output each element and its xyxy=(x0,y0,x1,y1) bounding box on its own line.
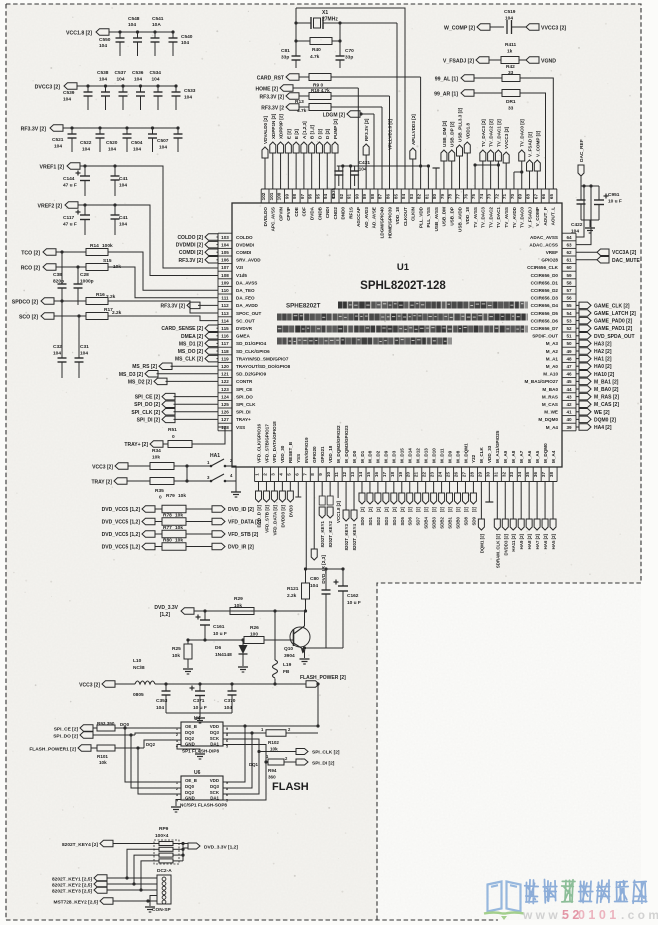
svg-text:90: 90 xyxy=(354,194,359,200)
svg-text:GPIO21: GPIO21 xyxy=(320,446,325,463)
capacitor C371 10uF xyxy=(190,682,207,713)
svg-text:COLDO: COLDO xyxy=(236,235,253,240)
svg-text:SD7: SD7 xyxy=(416,516,421,525)
svg-text:HA7 [2]: HA7 [2] xyxy=(535,533,540,549)
svg-text:11: 11 xyxy=(334,472,339,477)
wire xyxy=(54,300,86,302)
svg-text:10 u F: 10 u F xyxy=(608,199,622,205)
label C538 xyxy=(97,70,109,83)
svg-text:121: 121 xyxy=(221,372,229,377)
top stub PUMP pin 93 xyxy=(332,118,338,189)
svg-text:DMEA [2]: DMEA [2] xyxy=(181,334,203,340)
signal tag DVDMDI left xyxy=(176,241,218,248)
wire emitter xyxy=(303,646,306,658)
wire pin63 up xyxy=(576,186,591,245)
capacitor C519 104 xyxy=(504,9,526,34)
svg-text:USB_DP [2]: USB_DP [2] xyxy=(450,121,455,147)
svg-text:DQ0: DQ0 xyxy=(185,784,195,789)
svg-text:[2]: [2] xyxy=(392,506,397,512)
top connector USB_DM pin 79 xyxy=(441,120,447,189)
svg-text:83: 83 xyxy=(409,194,414,200)
svg-text:D6: D6 xyxy=(215,645,221,651)
wire base rail xyxy=(196,609,307,612)
signal tag SPDCO xyxy=(12,298,54,306)
svg-text:VFD_STB [2]: VFD_STB [2] xyxy=(264,505,269,533)
svg-text:20: 20 xyxy=(406,472,411,478)
svg-text:RF1S: RF1S xyxy=(348,207,353,219)
svg-text:DA_TEO: DA_TEO xyxy=(236,288,255,293)
ground U4 xyxy=(177,745,205,760)
svg-text:FLASH: FLASH xyxy=(272,781,309,793)
svg-text:DVDLDO: DVDLDO xyxy=(263,207,268,227)
resistor R80 10k xyxy=(162,538,186,551)
svg-text:AD_AVSE: AD_AVSE xyxy=(372,207,377,228)
label C534 xyxy=(150,70,162,83)
wire crystal left branch xyxy=(294,8,297,52)
signal tag 8202T_KEY3 xyxy=(52,887,157,895)
wire TV_AVSS link xyxy=(473,163,500,189)
svg-text:95: 95 xyxy=(315,194,320,200)
svg-text:126: 126 xyxy=(221,410,229,415)
svg-text:104: 104 xyxy=(108,147,116,153)
svg-text:E [2]: E [2] xyxy=(286,129,291,139)
svg-text:[2]: [2] xyxy=(384,506,389,512)
svg-text:PLL_VSS: PLL_VSS xyxy=(426,207,431,227)
svg-text:C353: C353 xyxy=(156,698,168,704)
top connector USB_DP pin 78 xyxy=(449,121,455,189)
svg-text:R34: R34 xyxy=(152,448,161,454)
svg-text:104: 104 xyxy=(119,222,127,228)
svg-text:SD5: SD5 xyxy=(400,516,405,525)
svg-text:DVD_VCC5 [1,2]: DVD_VCC5 [1,2] xyxy=(102,507,141,513)
svg-text:FLASH_POWER [2]: FLASH_POWER [2] xyxy=(300,675,346,681)
svg-text:TV_DAC1: TV_DAC1 xyxy=(496,207,501,228)
svg-text:VREF: VREF xyxy=(546,250,558,255)
svg-text:92: 92 xyxy=(339,194,344,200)
svg-text:CCIR656_D2: CCIR656_D2 xyxy=(531,288,559,293)
svg-text:M_DQM3/GPIO23: M_DQM3/GPIO23 xyxy=(344,425,349,463)
svg-text:AOUT_P: AOUT_P xyxy=(543,207,548,226)
svg-text:122: 122 xyxy=(221,379,229,384)
svg-text:R101: R101 xyxy=(97,754,108,759)
signal tag M_BA0 right xyxy=(576,386,619,393)
svg-text:DVD_IR [2]: DVD_IR [2] xyxy=(228,545,254,551)
power tag VCC3 bottom xyxy=(79,681,135,689)
svg-text:84: 84 xyxy=(401,194,406,200)
power tag DVD_3.3V keys xyxy=(188,843,238,851)
svg-text:64: 64 xyxy=(566,235,572,240)
svg-text:SD9: SD9 xyxy=(471,516,476,525)
svg-text:C41: C41 xyxy=(119,176,128,182)
capacitor C80 104 xyxy=(310,569,331,648)
svg-text:COMDI: COMDI xyxy=(236,250,251,255)
svg-text:SD_D2/GPIO9: SD_D2/GPIO9 xyxy=(236,372,267,377)
svg-text:D [2]: D [2] xyxy=(317,128,322,139)
svg-text:27: 27 xyxy=(461,472,466,478)
svg-text:TV_DAC1 [2]: TV_DAC1 [2] xyxy=(496,119,501,147)
svg-text:GND: GND xyxy=(185,742,195,747)
svg-text:56: 56 xyxy=(566,296,572,301)
label C537 xyxy=(115,70,127,83)
U1 top-side pin names xyxy=(263,206,556,238)
resistor R79 10k xyxy=(162,493,186,513)
svg-text:CLKIN: CLKIN xyxy=(411,206,416,221)
svg-text:C507: C507 xyxy=(157,138,169,144)
signal tag COMDI left xyxy=(179,249,218,256)
wire U6 VDD up xyxy=(223,724,247,782)
wire xyxy=(520,93,546,189)
svg-text:M_A4: M_A4 xyxy=(551,450,556,463)
svg-text:123: 123 xyxy=(221,387,229,392)
svg-text:C540: C540 xyxy=(181,34,193,40)
top connector VDVALD0 pin 102 xyxy=(262,116,268,189)
svg-text:TRAYIN/SD_SMD/GPIO7: TRAYIN/SD_SMD/GPIO7 xyxy=(236,356,289,361)
capacitor C370 104 xyxy=(224,682,237,713)
svg-text:C161: C161 xyxy=(213,624,225,630)
svg-text:30: 30 xyxy=(485,472,490,478)
svg-text:DA1: DA1 xyxy=(210,742,219,747)
wire RP9 left bus xyxy=(127,849,154,890)
svg-text:M_A11/GPIO25: M_A11/GPIO25 xyxy=(495,430,500,463)
svg-text:76: 76 xyxy=(463,194,468,200)
svg-text:104: 104 xyxy=(63,97,71,103)
svg-text:108: 108 xyxy=(221,273,229,278)
signal tag SPI_DI flash xyxy=(296,759,335,767)
svg-text:70: 70 xyxy=(510,194,515,200)
svg-text:GND: GND xyxy=(185,796,195,801)
svg-text:5: 5 xyxy=(286,473,291,476)
svg-text:R35: R35 xyxy=(155,488,164,494)
svg-text:26: 26 xyxy=(454,472,459,478)
svg-text:124: 124 xyxy=(221,394,229,399)
svg-text:43: 43 xyxy=(566,394,572,399)
top connector V_FSAD pin 68 xyxy=(527,132,533,189)
svg-text:PLL_VDD: PLL_VDD xyxy=(418,206,423,228)
svg-text:25: 25 xyxy=(446,472,451,478)
svg-text:106: 106 xyxy=(221,258,229,263)
signal tag HA1 right xyxy=(576,355,612,362)
capacitor C70 33p xyxy=(336,48,355,68)
svg-text:TV_AVSS: TV_AVSS xyxy=(504,207,509,228)
svg-text:33p: 33p xyxy=(281,55,289,61)
svg-text:6: 6 xyxy=(294,473,299,476)
svg-text:104: 104 xyxy=(99,43,107,49)
wire xyxy=(231,466,236,492)
svg-text:VFD_CLK/GPIO16: VFD_CLK/GPIO16 xyxy=(256,423,261,463)
svg-text:VDD1.8: VDD1.8 xyxy=(465,122,470,139)
svg-text:R19 4.7k: R19 4.7k xyxy=(311,88,330,93)
svg-text:WE [2]: WE [2] xyxy=(594,410,610,416)
top connector D pin 95 xyxy=(316,128,322,189)
wire xyxy=(357,88,359,189)
svg-text:71: 71 xyxy=(502,194,507,200)
svg-text:104: 104 xyxy=(53,351,61,357)
svg-text:104: 104 xyxy=(184,95,192,101)
power tag DVD_VCC5 row 2 xyxy=(102,518,162,525)
power tag DVD_VCC5 row 4 xyxy=(102,543,162,550)
top connector TV_DAC2 pin 73 xyxy=(488,119,494,189)
svg-text:HA5 [2]: HA5 [2] xyxy=(551,533,556,549)
power tag RF3.3V row3 xyxy=(260,93,309,101)
wire xyxy=(186,521,212,523)
svg-text:62: 62 xyxy=(566,250,572,255)
svg-text:GPIO20: GPIO20 xyxy=(312,446,317,463)
svg-text:MS_D1 [2]: MS_D1 [2] xyxy=(179,341,204,347)
svg-text:D [2]: D [2] xyxy=(325,128,330,139)
svg-text:52: 52 xyxy=(566,326,572,331)
svg-text:29: 29 xyxy=(477,472,482,478)
U1 right pin number column xyxy=(562,233,576,431)
svg-text:DAC_MUTE: DAC_MUTE xyxy=(612,258,640,264)
label C539 xyxy=(63,90,75,103)
top connector E pin 98 xyxy=(293,129,299,189)
signal tag VFD_STB xyxy=(212,531,259,538)
capacitor bank C521 C522 C520 C504 C507 xyxy=(68,126,183,152)
svg-text:SD1: SD1 xyxy=(368,516,373,525)
resistor R94 360 xyxy=(249,754,296,780)
svg-text:DAC_REF: DAC_REF xyxy=(579,139,585,162)
svg-text:USB_DM: USB_DM xyxy=(442,207,447,227)
signal tag SPI_CE left xyxy=(135,393,218,400)
svg-text:SPI_CE: SPI_CE xyxy=(236,387,252,392)
capacitor C38 820p xyxy=(53,250,67,305)
svg-text:33: 33 xyxy=(509,472,514,478)
svg-text:104: 104 xyxy=(224,705,232,711)
svg-text:75: 75 xyxy=(471,194,476,200)
ground xyxy=(585,228,595,233)
svg-text:42: 42 xyxy=(566,402,572,407)
svg-text:M_A7: M_A7 xyxy=(519,450,524,463)
signal tag HOME xyxy=(256,85,359,93)
signal tag TRAY+ xyxy=(124,441,163,448)
svg-text:CDE: CDE xyxy=(294,207,299,217)
svg-text:HOME [2]: HOME [2] xyxy=(256,87,279,93)
U1 left-side pin names xyxy=(236,235,291,430)
resistor R29 10k xyxy=(230,596,306,615)
svg-text:4: 4 xyxy=(278,473,283,476)
svg-text:M_RAS: M_RAS xyxy=(542,394,558,399)
signal tag MS_CLK xyxy=(175,355,218,362)
svg-text:SD_CLK/GPIO6: SD_CLK/GPIO6 xyxy=(236,349,270,354)
svg-text:SCK: SCK xyxy=(210,790,220,795)
svg-text:115: 115 xyxy=(221,326,229,331)
svg-text:SPI_DI [2]: SPI_DI [2] xyxy=(137,417,161,423)
svg-text:CARD_RST: CARD_RST xyxy=(257,76,284,82)
svg-text:V_FSADJ [2]: V_FSADJ [2] xyxy=(443,59,474,65)
svg-text:10k: 10k xyxy=(270,747,278,752)
svg-text:M_D3: M_D3 xyxy=(392,450,397,463)
svg-text:SD0: SD0 xyxy=(360,516,365,525)
svg-text:CARD_SENSE [2]: CARD_SENSE [2] xyxy=(161,326,203,332)
svg-text:HA0 [2]: HA0 [2] xyxy=(594,364,612,370)
capacitor C353 104 xyxy=(156,682,171,713)
svg-text:DQM1 [2]: DQM1 [2] xyxy=(479,533,484,553)
svg-text:47 u F: 47 u F xyxy=(63,222,77,228)
svg-text:91: 91 xyxy=(347,194,352,200)
svg-text:SPI_CLK: SPI_CLK xyxy=(236,402,256,407)
wire TV_AVDD link xyxy=(514,170,523,189)
svg-text:DQ2: DQ2 xyxy=(185,736,195,741)
signal tag RCO xyxy=(21,264,56,272)
svg-text:68: 68 xyxy=(526,194,531,200)
wire xyxy=(373,114,375,189)
transistor Q10 3904 xyxy=(284,626,310,659)
svg-text:DVDMDI [2]: DVDMDI [2] xyxy=(176,243,204,249)
svg-text:C504: C504 xyxy=(131,140,143,146)
power tag DVD_3.3V xyxy=(154,605,230,618)
label C521 xyxy=(52,137,64,150)
svg-text:114: 114 xyxy=(221,318,229,323)
svg-text:8: 8 xyxy=(310,473,315,476)
svg-text:w w w .: w w w . xyxy=(522,908,564,922)
svg-text:MS_RS [2]: MS_RS [2] xyxy=(132,364,157,370)
svg-text:SPI_CLK [2]: SPI_CLK [2] xyxy=(131,410,160,416)
svg-text:99_AL [1]: 99_AL [1] xyxy=(435,77,459,83)
U1 bottom-side pin names xyxy=(256,421,556,463)
svg-text:DR1: DR1 xyxy=(506,99,516,105)
svg-text:VCC1.8 [2]: VCC1.8 [2] xyxy=(66,31,92,37)
svg-text:M_A1: M_A1 xyxy=(546,356,559,361)
wire flash power down xyxy=(223,682,320,726)
svg-text:M_D14: M_D14 xyxy=(408,448,413,463)
signal tag FLASH_POWER1 xyxy=(29,745,97,753)
svg-text:SCO [2]: SCO [2] xyxy=(19,315,38,321)
svg-text:M_A4: M_A4 xyxy=(546,425,559,430)
svg-text:C537: C537 xyxy=(115,70,127,76)
signal tag VREF1 xyxy=(39,163,80,171)
svg-text:2.2k: 2.2k xyxy=(112,310,122,316)
power stub VCC1.8 pin11 xyxy=(336,482,341,523)
SDRAM address connectors pins 29-38 DQM1 SDRAM_CLK HA5-HA11 xyxy=(478,482,556,569)
svg-text:118: 118 xyxy=(221,349,229,354)
svg-text:SPI_DI: SPI_DI xyxy=(236,410,251,415)
svg-text:TV_DAC0: TV_DAC0 xyxy=(520,207,525,228)
wire VDD U4 row xyxy=(223,724,320,727)
svg-text:FLASH_POWER1 [2]: FLASH_POWER1 [2] xyxy=(29,747,76,753)
svg-text:HA8 [2]: HA8 [2] xyxy=(527,533,532,549)
svg-text:VVCC3 [2]: VVCC3 [2] xyxy=(541,26,566,32)
svg-text:USB_AVSS: USB_AVSS xyxy=(434,207,439,231)
svg-text:RF3.3V [2]: RF3.3V [2] xyxy=(179,258,204,264)
svg-text:DVDD3 [2]: DVDD3 [2] xyxy=(280,505,285,528)
svg-text:12: 12 xyxy=(342,472,347,478)
svg-text:HA3 [2]: HA3 [2] xyxy=(594,341,612,347)
wire xyxy=(163,427,225,444)
svg-text:VDD_18: VDD_18 xyxy=(465,207,470,225)
svg-text:127: 127 xyxy=(221,417,229,422)
svg-text:14: 14 xyxy=(358,472,363,478)
svg-text:C28: C28 xyxy=(80,272,89,278)
resistor R51 0 xyxy=(168,427,192,448)
svg-text:DQ2: DQ2 xyxy=(146,742,156,747)
svg-text:8202T_KEY2: 8202T_KEY2 xyxy=(328,520,333,547)
svg-text:GAME_LATCH [2]: GAME_LATCH [2] xyxy=(594,311,636,317)
svg-text:CCIR656_D0: CCIR656_D0 xyxy=(531,273,559,278)
signal tag TCO xyxy=(21,249,56,257)
svg-text:13: 13 xyxy=(350,472,355,478)
svg-text:SDB1: SDB1 xyxy=(448,516,453,528)
svg-text:DVD_VCC5 [1,2]: DVD_VCC5 [1,2] xyxy=(102,545,141,551)
signal tag MS_DO xyxy=(178,348,218,355)
svg-text:104: 104 xyxy=(310,583,318,589)
top connector A pin 97 xyxy=(301,121,307,189)
svg-text:M_CLK: M_CLK xyxy=(479,446,484,463)
svg-text:V2I: V2I xyxy=(236,265,243,270)
svg-text:99_AR [1]: 99_AR [1] xyxy=(434,92,458,98)
ground xyxy=(231,492,241,497)
svg-text:6: 6 xyxy=(226,739,228,743)
svg-text:57: 57 xyxy=(566,288,572,293)
svg-text:VREF1 [2]: VREF1 [2] xyxy=(39,165,64,171)
watermark chinese site name xyxy=(525,880,647,904)
signal tag RF3.3V left xyxy=(179,257,218,264)
svg-text:5: 5 xyxy=(226,745,228,749)
svg-text:COLDO [2]: COLDO [2] xyxy=(177,235,203,241)
svg-text:9: 9 xyxy=(226,727,228,731)
wire xyxy=(128,464,205,467)
svg-text:AOUT_L: AOUT_L xyxy=(551,207,556,226)
svg-text:104: 104 xyxy=(80,351,88,357)
svg-text:104: 104 xyxy=(82,147,90,153)
svg-text:74: 74 xyxy=(479,194,484,200)
svg-text:X1: X1 xyxy=(322,10,328,16)
svg-text:C144: C144 xyxy=(63,176,75,182)
signal tag VFD_DATA xyxy=(212,518,262,525)
svg-text:103: 103 xyxy=(221,235,229,240)
svg-text:M_D12: M_D12 xyxy=(416,448,421,463)
wire crystal top rail xyxy=(296,8,405,189)
wire crystal right branch xyxy=(396,23,398,189)
signal connectors 8202T_KEY3 KEY4 xyxy=(343,482,357,551)
resistor R93 390 xyxy=(97,721,181,731)
svg-text:SDB3: SDB3 xyxy=(432,516,437,528)
svg-text:SD2: SD2 xyxy=(376,516,381,525)
svg-text:SD3: SD3 xyxy=(384,516,389,525)
resistor R13 4.7k xyxy=(295,99,382,114)
svg-text:COMDI [2]: COMDI [2] xyxy=(179,250,204,256)
svg-text:SDB2: SDB2 xyxy=(440,516,445,528)
svg-text:R121: R121 xyxy=(287,586,299,592)
svg-text:RCO [2]: RCO [2] xyxy=(21,266,41,272)
label C522 xyxy=(80,140,92,153)
svg-text:M_DQM1: M_DQM1 xyxy=(463,443,468,463)
signal tag GAME_PAD0 right xyxy=(576,317,633,324)
svg-text:VDVALD0 [2]: VDVALD0 [2] xyxy=(263,116,268,144)
svg-text:119: 119 xyxy=(221,356,229,361)
svg-text:104: 104 xyxy=(156,705,164,711)
svg-text:81: 81 xyxy=(424,194,429,200)
svg-text:M_D8: M_D8 xyxy=(455,450,460,463)
svg-text:47: 47 xyxy=(566,364,572,369)
svg-text:1k: 1k xyxy=(507,49,513,55)
svg-text:MS_D2 [2]: MS_D2 [2] xyxy=(128,379,153,385)
svg-text:33: 33 xyxy=(508,106,514,112)
svg-text:4.7k: 4.7k xyxy=(310,54,320,60)
label C533 xyxy=(184,88,196,101)
svg-text:VDD_18: VDD_18 xyxy=(395,207,400,225)
svg-text:M_WE: M_WE xyxy=(544,410,558,415)
power tag VGND xyxy=(526,57,556,65)
svg-text:DVDMDI: DVDMDI xyxy=(236,242,254,247)
signal tag CARD_RST xyxy=(257,74,309,82)
svg-text:NC/SP1 FLASH-SOP8: NC/SP1 FLASH-SOP8 xyxy=(180,803,227,808)
svg-text:CCIR656_D7: CCIR656_D7 xyxy=(531,326,559,331)
svg-text:DQ3: DQ3 xyxy=(210,730,220,735)
svg-text:8: 8 xyxy=(226,733,228,737)
capacitor C431 104 xyxy=(350,160,370,186)
wire xyxy=(420,77,422,189)
svg-text:VDD_33: VDD_33 xyxy=(487,445,492,463)
